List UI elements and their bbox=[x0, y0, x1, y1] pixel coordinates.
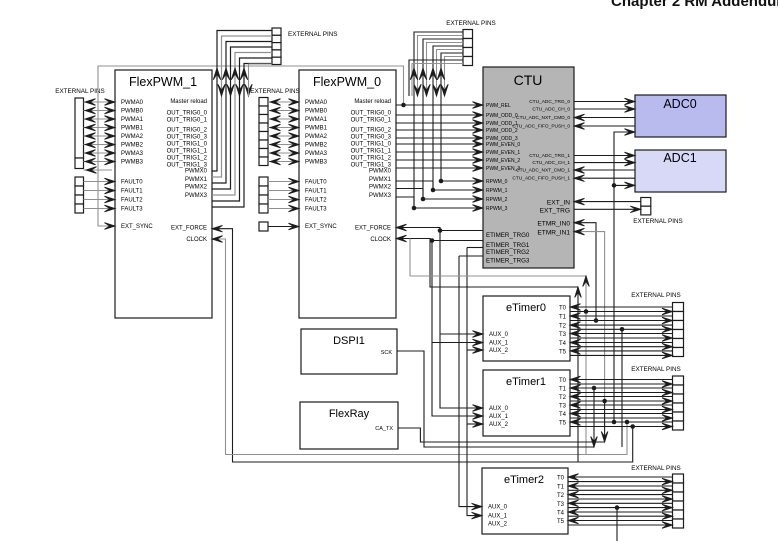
svg-text:FlexPWM_1: FlexPWM_1 bbox=[129, 75, 197, 89]
wires gray bundle above CTU bbox=[409, 36, 463, 97]
svg-text:PWMA1: PWMA1 bbox=[305, 117, 328, 123]
wire CTU_ADC_NXT_CMD_1 bbox=[574, 167, 635, 174]
svg-text:T2: T2 bbox=[559, 395, 567, 401]
svg-text:T3: T3 bbox=[557, 502, 565, 508]
svg-text:PWMB0: PWMB0 bbox=[121, 109, 144, 115]
svg-text:T2: T2 bbox=[559, 324, 567, 330]
svg-text:CTU_ADC_FIFO_PUSH_1: CTU_ADC_FIFO_PUSH_1 bbox=[512, 176, 570, 182]
external pins stack top middle bbox=[272, 28, 337, 65]
svg-text:CTU_ADC_CH_1: CTU_ADC_CH_1 bbox=[532, 160, 570, 166]
wire CTU_ADC_TRG_0 bbox=[574, 98, 635, 105]
svg-text:PWM_EVEN_1: PWM_EVEN_1 bbox=[486, 150, 520, 156]
block eTimer0 bbox=[483, 296, 570, 361]
svg-text:PWMA1: PWMA1 bbox=[121, 117, 144, 123]
svg-text:PWM_EVEN_0: PWM_EVEN_0 bbox=[486, 142, 520, 148]
svg-text:ADC0: ADC0 bbox=[663, 97, 696, 111]
svg-text:FlexRay: FlexRay bbox=[329, 408, 370, 420]
block ADC0 bbox=[635, 95, 726, 137]
svg-text:PWMX1: PWMX1 bbox=[185, 177, 208, 183]
svg-text:CLOCK: CLOCK bbox=[370, 237, 391, 243]
svg-text:T0: T0 bbox=[559, 306, 567, 312]
svg-text:ETIMER_TRG2: ETIMER_TRG2 bbox=[486, 249, 530, 256]
svg-text:T4: T4 bbox=[559, 341, 567, 347]
svg-text:OUT_TRIG1_0: OUT_TRIG1_0 bbox=[351, 142, 392, 148]
wires bundle between FlexPWM blocks to external pins bbox=[212, 31, 272, 208]
wire eTimer return black bbox=[575, 287, 582, 462]
svg-text:PWMX2: PWMX2 bbox=[369, 185, 392, 191]
svg-text:PWMA0: PWMA0 bbox=[305, 100, 328, 106]
wire eTimer1 to FlexPWM_1 EXT_FORCE loop bbox=[212, 225, 635, 462]
svg-text:CTU_ADC_NXT_CMD_1: CTU_ADC_NXT_CMD_1 bbox=[516, 168, 570, 174]
wires eTimer1 T pins bbox=[570, 376, 673, 430]
svg-text:ETIMER_TRG1: ETIMER_TRG1 bbox=[486, 242, 530, 249]
wires FlexPWM_0 OUT_TRIG to CTU bbox=[396, 112, 483, 172]
svg-text:EXTERNAL PINS: EXTERNAL PINS bbox=[631, 292, 680, 299]
wire CTU_ADC_TRG_1 bbox=[574, 152, 635, 159]
svg-text:eTimer2: eTimer2 bbox=[504, 474, 544, 486]
svg-text:OUT_TRIG0_2: OUT_TRIG0_2 bbox=[167, 128, 208, 134]
external pins stack FlexPWM_0 faults bbox=[259, 177, 268, 213]
labels FlexPWM_1 left pins bbox=[121, 100, 153, 230]
svg-text:OUT_TRIG0_0: OUT_TRIG0_0 bbox=[167, 111, 208, 117]
external pins stack eTimer0 bbox=[631, 292, 683, 357]
wire ETIMER_TRG3 and eTimer2 AUX_0 feed bbox=[459, 256, 483, 510]
svg-text:CTU_ADC_FIFO_PUSH_0: CTU_ADC_FIFO_PUSH_0 bbox=[512, 124, 570, 130]
wire EXT_TRG to external pin bbox=[574, 206, 641, 213]
arrows bundle above CTU bbox=[410, 68, 448, 96]
svg-text:T3: T3 bbox=[559, 404, 567, 410]
external pins stack right of ADC1 bbox=[633, 198, 682, 226]
svg-text:EXT_FORCE: EXT_FORCE bbox=[171, 226, 207, 232]
wire eTimer1 T5 to ADC0 ADC1 inputs bbox=[612, 129, 635, 425]
svg-text:EXT_IN: EXT_IN bbox=[547, 200, 570, 207]
svg-text:OUT_TRIG1_2: OUT_TRIG1_2 bbox=[167, 156, 208, 162]
svg-text:T0: T0 bbox=[559, 378, 567, 384]
svg-text:PWM_REL: PWM_REL bbox=[486, 103, 511, 109]
svg-text:FAULT0: FAULT0 bbox=[121, 180, 143, 186]
svg-text:T1: T1 bbox=[559, 387, 567, 393]
svg-text:ETMR_IN1: ETMR_IN1 bbox=[537, 230, 570, 237]
wire eTimer1 to FlexPWM_1 CLOCK loop bbox=[212, 236, 629, 455]
svg-text:T1: T1 bbox=[559, 315, 567, 321]
svg-text:EXTERNAL PINS: EXTERNAL PINS bbox=[446, 20, 495, 27]
svg-text:PWMX0: PWMX0 bbox=[369, 169, 392, 175]
svg-text:ADC1: ADC1 bbox=[663, 151, 696, 165]
arrows bundle between FlexPWM blocks bbox=[213, 64, 272, 96]
svg-text:OUT_TRIG1_2: OUT_TRIG1_2 bbox=[351, 156, 392, 162]
svg-text:PWMA3: PWMA3 bbox=[305, 151, 328, 157]
svg-text:AUX_2: AUX_2 bbox=[489, 422, 509, 428]
svg-text:AUX_0: AUX_0 bbox=[489, 406, 509, 412]
labels FlexPWM_0 left pins bbox=[305, 100, 337, 230]
block eTimer2 bbox=[482, 468, 568, 534]
svg-text:PWMX0: PWMX0 bbox=[185, 169, 208, 175]
external pins stack left of FlexPWM_1 bbox=[55, 88, 104, 169]
svg-text:PWMB3: PWMB3 bbox=[121, 160, 144, 166]
svg-text:FAULT0: FAULT0 bbox=[305, 180, 327, 186]
taps eTimer0 rows bbox=[620, 327, 625, 447]
svg-text:ETIMER_TRG0: ETIMER_TRG0 bbox=[486, 232, 530, 239]
svg-text:AUX_0: AUX_0 bbox=[489, 332, 509, 338]
block eTimer1 bbox=[483, 370, 570, 436]
wire DSPI1 SCK to eTimer2 AUX_1 bus bbox=[397, 351, 594, 447]
svg-text:PWMB1: PWMB1 bbox=[305, 126, 328, 132]
external pins stack eTimer2 bbox=[631, 465, 683, 528]
labels eTimer0 pins bbox=[489, 306, 567, 356]
svg-text:OUT_TRIG0_0: OUT_TRIG0_0 bbox=[351, 111, 392, 117]
block DSPI1 bbox=[301, 329, 397, 374]
svg-text:AUX_1: AUX_1 bbox=[488, 514, 508, 520]
svg-text:CTU_ADC_TRG_1: CTU_ADC_TRG_1 bbox=[529, 153, 570, 159]
svg-text:EXT_FORCE: EXT_FORCE bbox=[355, 226, 391, 232]
svg-text:EXTERNAL PINS: EXTERNAL PINS bbox=[631, 366, 680, 373]
svg-text:EXTERNAL PINS: EXTERNAL PINS bbox=[633, 218, 682, 225]
svg-text:EXTERNAL PINS: EXTERNAL PINS bbox=[250, 88, 299, 95]
svg-text:PWMB3: PWMB3 bbox=[305, 160, 328, 166]
wires FlexPWM_0 FAULT inputs bbox=[268, 178, 299, 212]
svg-text:PWMX3: PWMX3 bbox=[185, 193, 208, 199]
block FlexPWM_0 bbox=[299, 70, 396, 318]
block FlexPWM_1 bbox=[115, 70, 212, 318]
external pins stack left of FlexPWM_0 bbox=[250, 88, 299, 166]
svg-text:T0: T0 bbox=[557, 476, 565, 482]
svg-text:PWMA2: PWMA2 bbox=[305, 134, 328, 140]
svg-text:AUX_2: AUX_2 bbox=[489, 348, 509, 354]
svg-text:T3: T3 bbox=[559, 332, 567, 338]
svg-text:CTU_ADC_CH_0: CTU_ADC_CH_0 bbox=[532, 107, 570, 113]
wire eTimer return gray bbox=[410, 239, 589, 455]
wire FlexPWM_0 master reload to CTU PWM_REL bbox=[396, 102, 483, 109]
wires eTimer0 T pins bbox=[570, 304, 673, 359]
wires FlexPWM_0 PWMX loopback bbox=[396, 181, 433, 208]
svg-text:PWMX2: PWMX2 bbox=[185, 185, 208, 191]
block ADC1 bbox=[635, 150, 726, 192]
wire ETMR_IN0 from eTimer0 T1 bbox=[574, 219, 598, 322]
external pins stack above CTU bbox=[446, 20, 495, 66]
svg-text:ETMR_IN0: ETMR_IN0 bbox=[537, 221, 570, 228]
wires bundle above CTU to external pins bbox=[414, 32, 463, 208]
svg-text:OUT_TRIG1_1: OUT_TRIG1_1 bbox=[351, 149, 392, 155]
wire EXT_IN from external pin bbox=[574, 198, 641, 205]
svg-text:RPWM_1: RPWM_1 bbox=[486, 188, 508, 194]
svg-text:OUT_TRIG0_1: OUT_TRIG0_1 bbox=[351, 118, 392, 124]
svg-text:EXTERNAL PINS: EXTERNAL PINS bbox=[631, 465, 680, 472]
svg-text:T5: T5 bbox=[559, 349, 567, 355]
svg-text:T4: T4 bbox=[559, 412, 567, 418]
svg-text:AUX_1: AUX_1 bbox=[489, 341, 509, 347]
external pins box FlexPWM_0 ext_sync bbox=[259, 222, 268, 231]
svg-text:T5: T5 bbox=[559, 421, 567, 427]
wires FlexPWM_1 PWM pins bidirectional bbox=[84, 99, 116, 174]
wire CTU_ADC_CH_0 bbox=[574, 106, 635, 113]
labels FlexPWM_0 right pins bbox=[351, 99, 392, 243]
wire CTU_ADC_NXT_CMD_0 bbox=[574, 114, 635, 121]
wire ETIMER_TRG2 and eTimer AUX_2 feeds bbox=[467, 248, 483, 519]
svg-text:PWMA3: PWMA3 bbox=[121, 151, 144, 157]
svg-text:FAULT2: FAULT2 bbox=[121, 198, 143, 204]
svg-text:PWMA0: PWMA0 bbox=[121, 100, 144, 106]
svg-text:ETIMER_TRG3: ETIMER_TRG3 bbox=[486, 258, 530, 265]
svg-text:T2: T2 bbox=[557, 493, 565, 499]
svg-text:RPWM_3: RPWM_3 bbox=[486, 206, 508, 212]
wire CTU_ADC_CH_1 bbox=[574, 159, 635, 166]
svg-text:SCK: SCK bbox=[381, 350, 393, 356]
external pins stack FlexPWM_1 faults bbox=[75, 177, 84, 213]
svg-text:OUT_TRIG0_3: OUT_TRIG0_3 bbox=[167, 135, 208, 141]
svg-text:Master reload: Master reload bbox=[354, 99, 391, 105]
wire FlexRay CA_TX to eTimer2 AUX_0 bus bbox=[398, 428, 604, 442]
labels CTU right pins bbox=[512, 99, 570, 237]
svg-text:PWMB1: PWMB1 bbox=[121, 126, 144, 132]
svg-text:PWMX3: PWMX3 bbox=[369, 193, 392, 199]
svg-text:CA_TX: CA_TX bbox=[375, 426, 393, 432]
svg-text:PWM_ODD_0: PWM_ODD_0 bbox=[486, 113, 518, 119]
svg-text:FAULT3: FAULT3 bbox=[305, 207, 327, 213]
svg-text:PWMA2: PWMA2 bbox=[121, 134, 144, 140]
svg-text:CLOCK: CLOCK bbox=[186, 237, 207, 243]
svg-text:EXTERNAL PINS: EXTERNAL PINS bbox=[55, 88, 104, 95]
block CTU bbox=[483, 67, 574, 268]
wire CTU_ADC_FIFO_PUSH_1 bbox=[574, 175, 635, 182]
svg-text:PWM_EVEN_2: PWM_EVEN_2 bbox=[486, 158, 520, 164]
svg-text:AUX_1: AUX_1 bbox=[489, 414, 509, 420]
svg-text:EXT_TRG: EXT_TRG bbox=[540, 208, 570, 215]
svg-text:CTU_ADC_TRG_0: CTU_ADC_TRG_0 bbox=[529, 99, 570, 105]
svg-text:eTimer0: eTimer0 bbox=[506, 302, 546, 314]
svg-text:OUT_TRIG1_1: OUT_TRIG1_1 bbox=[167, 149, 208, 155]
labels FlexPWM_1 right pins bbox=[167, 99, 208, 243]
svg-text:PWMX1: PWMX1 bbox=[369, 177, 392, 183]
svg-text:FAULT3: FAULT3 bbox=[121, 207, 143, 213]
labels eTimer1 pins bbox=[489, 378, 567, 428]
svg-text:PWMB0: PWMB0 bbox=[305, 109, 328, 115]
wire FlexPWM_0 EXT_FORCE and ETIMER_TRG0 and eTimer1 AUX_0 bbox=[396, 224, 483, 411]
svg-text:FlexPWM_0: FlexPWM_0 bbox=[313, 75, 381, 89]
svg-text:T5: T5 bbox=[557, 519, 565, 525]
tap eTimer2 row bbox=[615, 505, 620, 541]
svg-text:CTU_ADC_NXT_CMD_0: CTU_ADC_NXT_CMD_0 bbox=[516, 115, 570, 121]
svg-text:FAULT1: FAULT1 bbox=[305, 189, 327, 195]
svg-text:FAULT1: FAULT1 bbox=[121, 189, 143, 195]
wire FlexPWM_0 CLOCK and ETIMER_TRG1 and eTimer1 AUX_1 bbox=[396, 235, 578, 419]
svg-text:OUT_TRIG0_1: OUT_TRIG0_1 bbox=[167, 118, 208, 124]
svg-text:OUT_TRIG0_2: OUT_TRIG0_2 bbox=[351, 128, 392, 134]
wires eTimer2 T pins bbox=[568, 474, 673, 529]
svg-text:AUX_0: AUX_0 bbox=[488, 505, 508, 511]
labels eTimer2 pins bbox=[488, 476, 565, 528]
svg-text:Master reload: Master reload bbox=[170, 99, 207, 105]
svg-text:OUT_TRIG1_0: OUT_TRIG1_0 bbox=[167, 142, 208, 148]
svg-text:RPWM_0: RPWM_0 bbox=[486, 179, 508, 185]
block FlexRay bbox=[300, 402, 398, 449]
wires FlexPWM_1 FAULT inputs bbox=[84, 178, 116, 212]
wire ETMR_IN1 from eTimer1 T2 bbox=[574, 228, 607, 403]
wire FlexPWM_0 master reload to FlexPWM_1 EXT_SYNC bbox=[98, 66, 406, 229]
svg-text:T1: T1 bbox=[557, 485, 565, 491]
svg-text:OUT_TRIG0_3: OUT_TRIG0_3 bbox=[351, 135, 392, 141]
svg-text:AUX_2: AUX_2 bbox=[488, 522, 508, 528]
svg-text:eTimer1: eTimer1 bbox=[506, 376, 546, 388]
labels CTU left pins bbox=[486, 103, 530, 265]
svg-text:T4: T4 bbox=[557, 511, 565, 517]
taps eTimer1 rows bbox=[591, 386, 608, 447]
svg-text:FAULT2: FAULT2 bbox=[305, 198, 327, 204]
wires RPWM lines to CTU bbox=[412, 178, 483, 212]
svg-text:PWMB2: PWMB2 bbox=[305, 143, 328, 149]
svg-text:EXT_SYNC: EXT_SYNC bbox=[305, 224, 337, 230]
wires FlexPWM_0 PWM pins bidirectional bbox=[268, 99, 299, 165]
svg-text:EXT_SYNC: EXT_SYNC bbox=[121, 224, 153, 230]
wire CTU_ADC_FIFO_PUSH_0 bbox=[574, 123, 635, 130]
svg-text:DSPI1: DSPI1 bbox=[333, 335, 365, 347]
svg-text:CTU: CTU bbox=[514, 72, 543, 88]
svg-text:RPWM_2: RPWM_2 bbox=[486, 197, 508, 203]
external pins stack eTimer1 bbox=[631, 366, 683, 430]
svg-text:EXTERNAL PINS: EXTERNAL PINS bbox=[288, 31, 337, 38]
svg-text:PWMB2: PWMB2 bbox=[121, 143, 144, 149]
wire FlexPWM_0 EXT_SYNC bbox=[268, 223, 299, 230]
